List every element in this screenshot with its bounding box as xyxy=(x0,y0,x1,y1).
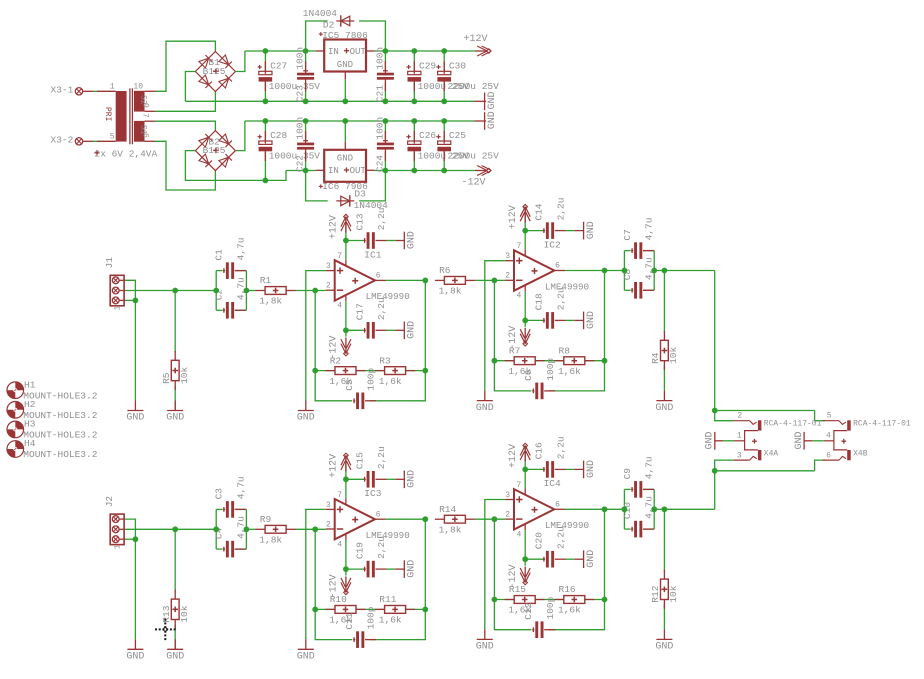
svg-text:1: 1 xyxy=(113,306,122,311)
svg-text:MOUNT-HOLE3.2: MOUNT-HOLE3.2 xyxy=(23,449,97,460)
wire bypass to ground xyxy=(566,468,575,470)
svg-text:C26: C26 xyxy=(419,130,436,141)
svg-text:10: 10 xyxy=(133,82,143,91)
ground xyxy=(166,639,184,662)
svg-text:R16: R16 xyxy=(559,584,576,595)
svg-text:1: 1 xyxy=(113,544,122,549)
svg-text:GND: GND xyxy=(407,470,418,488)
svg-text:GND: GND xyxy=(126,413,144,424)
svg-text:J2: J2 xyxy=(104,496,115,508)
wire V- net stage2 xyxy=(525,291,543,327)
svg-text:R13: R13 xyxy=(161,605,172,622)
svg-text:GND: GND xyxy=(476,642,494,653)
ground xyxy=(395,321,417,339)
svg-text:3: 3 xyxy=(326,501,331,510)
capacitor C27 xyxy=(258,60,321,92)
bridge rectifier B2 xyxy=(195,131,235,171)
svg-text:2: 2 xyxy=(505,511,510,520)
wire bypass to ground xyxy=(566,319,575,321)
svg-text:1: 1 xyxy=(737,431,742,440)
svg-text:1,8k: 1,8k xyxy=(439,286,462,297)
supply +12V xyxy=(329,214,351,239)
capacitor C30 xyxy=(436,60,499,92)
svg-text:GND: GND xyxy=(407,560,418,578)
svg-text:R8: R8 xyxy=(559,345,571,356)
wire input net xyxy=(125,519,216,539)
svg-text:100p: 100p xyxy=(366,367,377,390)
svg-text:2: 2 xyxy=(505,272,510,281)
resistor R13 xyxy=(161,590,190,629)
resistor R2 xyxy=(326,355,366,387)
svg-text:+12V: +12V xyxy=(464,34,488,45)
supply -12V xyxy=(462,166,492,189)
svg-text:100p: 100p xyxy=(545,596,556,619)
junction dots power rails xyxy=(263,48,448,183)
svg-text:R7: R7 xyxy=(509,345,520,356)
mount hole H3 xyxy=(7,419,98,441)
ground xyxy=(476,629,494,652)
connector X3-2 xyxy=(51,135,94,146)
svg-text:7: 7 xyxy=(517,481,522,490)
capacitor C3 xyxy=(214,476,247,517)
svg-text:C5: C5 xyxy=(344,379,355,391)
svg-text:GND: GND xyxy=(586,550,597,568)
wire R4 branch xyxy=(663,509,665,629)
svg-text:OUT: OUT xyxy=(350,47,367,57)
svg-text:X3-1: X3-1 xyxy=(51,85,74,96)
capacitor C4 xyxy=(214,516,247,557)
ground xyxy=(297,639,315,662)
wire secondary S2 pin 9 to bridge B1 AC xyxy=(155,92,215,112)
wire R4 branch xyxy=(663,271,665,391)
wire C25 leads xyxy=(443,121,445,171)
wire B1 minus to 0V rail xyxy=(185,72,195,102)
svg-text:C6: C6 xyxy=(523,369,534,381)
wire feedback net xyxy=(315,280,425,400)
capacitor C9 xyxy=(622,456,655,497)
wire V+ net stage2 xyxy=(525,207,543,250)
svg-text:GND: GND xyxy=(655,403,673,414)
wire stage2 non-inverting input to ground xyxy=(485,500,505,630)
capacitor C11 xyxy=(344,606,377,648)
capacitor C5 xyxy=(344,367,377,409)
svg-text:C12: C12 xyxy=(523,602,534,619)
wire 0V rail upper xyxy=(185,100,474,102)
mount hole H4 xyxy=(7,438,98,460)
capacitor C21 xyxy=(374,47,394,102)
svg-text:2,2u: 2,2u xyxy=(555,198,566,221)
svg-text:9: 9 xyxy=(141,103,150,108)
svg-text:LME49990: LME49990 xyxy=(366,530,410,541)
capacitor C16 xyxy=(534,436,567,477)
svg-text:H1: H1 xyxy=(24,379,36,390)
regulator IC6 7906 xyxy=(316,142,375,192)
resistor R11 xyxy=(375,594,415,626)
junction dots xyxy=(133,228,668,374)
svg-text:3: 3 xyxy=(326,262,331,271)
svg-text:GND: GND xyxy=(337,60,353,70)
svg-text:2200u 25V: 2200u 25V xyxy=(448,81,500,92)
diode D3 1N4004 xyxy=(336,188,388,211)
svg-text:C29: C29 xyxy=(419,60,436,71)
svg-text:J1: J1 xyxy=(104,257,115,269)
svg-text:2,2u: 2,2u xyxy=(376,446,387,469)
wire R1 to op-amp inverting input xyxy=(295,528,326,530)
wire C29 leads xyxy=(413,51,415,101)
resistor R4 xyxy=(650,331,679,370)
supply +12V xyxy=(508,204,530,229)
svg-text:R15: R15 xyxy=(509,584,526,595)
svg-text:C28: C28 xyxy=(270,130,287,141)
svg-text:2,2u: 2,2u xyxy=(555,287,566,310)
capacitor C20 xyxy=(534,526,567,567)
wire secondary S1 pin 6 to bridge B2 AC xyxy=(155,141,215,190)
resistor R5 xyxy=(161,351,190,390)
capacitor C13 xyxy=(354,207,387,248)
svg-text:2,2u: 2,2u xyxy=(555,436,566,459)
wire X3-1 to transformer pin 1 xyxy=(93,90,99,92)
svg-text:IC3: IC3 xyxy=(364,488,381,499)
svg-text:C3: C3 xyxy=(214,488,225,500)
svg-text:10k: 10k xyxy=(668,346,679,363)
capacitor C12 xyxy=(523,596,556,638)
svg-text:3: 3 xyxy=(505,252,510,261)
svg-text:R6: R6 xyxy=(439,265,451,276)
capacitor C23 xyxy=(295,47,315,102)
svg-text:R5: R5 xyxy=(161,372,172,384)
wire bypass to ground xyxy=(386,478,395,480)
svg-text:GND: GND xyxy=(126,652,144,663)
connector J1 xyxy=(104,257,125,311)
wire V+ net stage2 xyxy=(525,446,543,489)
svg-text:4: 4 xyxy=(826,431,831,440)
svg-text:GND: GND xyxy=(487,91,498,109)
svg-text:+12V: +12V xyxy=(508,205,519,229)
svg-text:6: 6 xyxy=(826,451,831,460)
op-amp IC2 xyxy=(505,239,589,300)
wire diode D3 loop xyxy=(306,171,386,201)
capacitor C22 xyxy=(295,117,315,172)
svg-text:LME49990: LME49990 xyxy=(366,291,410,302)
wire input cap loop xyxy=(216,509,246,549)
ground xyxy=(166,401,184,424)
capacitor C6 xyxy=(523,358,556,400)
svg-text:GND: GND xyxy=(407,231,418,249)
svg-text:IN: IN xyxy=(328,166,339,176)
svg-text:GND: GND xyxy=(487,111,498,129)
wire C26 leads xyxy=(413,121,415,171)
svg-text:D2: D2 xyxy=(323,20,335,31)
wire feedback net stage2 xyxy=(494,271,604,391)
capacitor C26 xyxy=(407,130,470,162)
svg-text:2,2u: 2,2u xyxy=(376,536,387,559)
svg-text:1,8k: 1,8k xyxy=(259,535,282,546)
svg-text:4,7u: 4,7u xyxy=(644,456,655,479)
wire feedback net xyxy=(315,519,425,639)
svg-text:X4B: X4B xyxy=(853,450,868,459)
svg-text:C15: C15 xyxy=(354,452,365,469)
svg-text:X4A: X4A xyxy=(764,450,779,459)
supply +12V xyxy=(508,443,530,468)
svg-text:2x 6V 2,4VA: 2x 6V 2,4VA xyxy=(95,149,158,160)
svg-text:R3: R3 xyxy=(379,355,391,366)
svg-text:LME49990: LME49990 xyxy=(545,281,589,292)
wire output cap loop xyxy=(624,489,664,529)
svg-text:C19: C19 xyxy=(354,542,365,559)
svg-text:1,6k: 1,6k xyxy=(379,376,402,387)
wire +12V rail xyxy=(245,50,475,52)
wire R5 branch xyxy=(174,291,176,411)
resistor R8 xyxy=(554,345,594,377)
ground xyxy=(575,550,597,568)
wire stage2 non-inverting input to ground xyxy=(485,261,505,391)
capacitor C7 xyxy=(622,218,655,259)
wire V- net xyxy=(346,301,364,337)
svg-text:R11: R11 xyxy=(379,594,396,605)
wire IC5 GND pin to 0V rail xyxy=(344,79,346,101)
svg-text:LME49990: LME49990 xyxy=(545,520,589,531)
svg-text:GND: GND xyxy=(586,221,597,239)
svg-text:5: 5 xyxy=(110,132,115,141)
mount hole H2 xyxy=(7,399,98,421)
svg-text:GND: GND xyxy=(337,153,353,163)
svg-text:1,8k: 1,8k xyxy=(439,524,462,535)
wire R6 to stage 2 xyxy=(475,279,505,281)
svg-text:IC1: IC1 xyxy=(364,249,381,260)
ground xyxy=(126,401,144,424)
wire C21 leads xyxy=(384,51,386,101)
svg-text:B125: B125 xyxy=(203,66,226,77)
resistor R14 xyxy=(435,504,475,536)
op-amp IC4 xyxy=(505,478,589,539)
ground xyxy=(476,391,494,414)
wire 0V rail lower xyxy=(245,120,475,122)
wire bottom channel to RCA jacks xyxy=(715,460,825,509)
wire C22 leads xyxy=(305,121,307,171)
supply -12V xyxy=(508,326,530,350)
wire top channel to RCA jacks xyxy=(715,271,825,421)
op-amp IC1 xyxy=(326,249,410,310)
wire C23 leads xyxy=(305,51,307,101)
supply -12V xyxy=(508,564,530,588)
wire diode D2 loop xyxy=(306,21,386,51)
wire output cap loop xyxy=(624,251,664,291)
svg-text:7: 7 xyxy=(517,242,522,251)
diode D2 1N4004 xyxy=(303,8,355,31)
svg-text:+12V: +12V xyxy=(329,454,340,478)
svg-text:C16: C16 xyxy=(534,442,545,459)
svg-text:GND: GND xyxy=(407,321,418,339)
svg-text:+12V: +12V xyxy=(508,444,519,468)
svg-text:4: 4 xyxy=(517,292,522,301)
ground xyxy=(575,460,597,478)
wire C28 leads xyxy=(264,121,266,180)
svg-text:R10: R10 xyxy=(330,594,347,605)
wire IC6 GND pin to 0V rail xyxy=(344,121,346,142)
capacitor C8 xyxy=(622,257,655,298)
svg-text:R9: R9 xyxy=(260,514,272,525)
svg-text:6: 6 xyxy=(376,272,381,281)
ground xyxy=(395,560,417,578)
capacitor C1 xyxy=(214,238,247,279)
wire X3-2 to transformer pin 5 xyxy=(93,140,99,142)
svg-text:+12V: +12V xyxy=(329,215,340,239)
resistor R15 xyxy=(505,584,545,616)
capacitor C25 xyxy=(436,130,499,162)
wire C30 leads xyxy=(443,51,445,101)
svg-text:10k: 10k xyxy=(179,366,190,383)
ground xyxy=(395,231,417,249)
svg-text:C11: C11 xyxy=(344,612,355,629)
svg-text:2: 2 xyxy=(326,520,331,529)
svg-text:1,8k: 1,8k xyxy=(259,296,282,307)
svg-text:C20: C20 xyxy=(534,532,545,549)
svg-text:7: 7 xyxy=(141,113,150,118)
wire J ground xyxy=(134,539,136,639)
svg-text:H3: H3 xyxy=(24,419,36,430)
svg-text:2200u 25V: 2200u 25V xyxy=(448,151,500,162)
capacitor C17 xyxy=(354,297,387,338)
resistor R16 xyxy=(554,584,594,616)
wire C24 leads xyxy=(384,121,386,171)
capacitor C14 xyxy=(534,198,567,239)
svg-text:X3-2: X3-2 xyxy=(51,135,74,146)
wire B2 minus to -12V rail xyxy=(185,151,286,181)
svg-text:-12V: -12V xyxy=(462,178,486,189)
ground xyxy=(297,401,315,424)
svg-text:10k: 10k xyxy=(668,585,679,602)
svg-text:GND: GND xyxy=(297,652,315,663)
svg-text:IN: IN xyxy=(328,47,339,57)
wire J ground xyxy=(134,300,136,400)
svg-text:C14: C14 xyxy=(534,203,545,220)
resistor R3 xyxy=(375,355,415,387)
wire stage2 output xyxy=(565,508,624,510)
svg-text:7: 7 xyxy=(337,252,342,261)
svg-text:1N4004: 1N4004 xyxy=(303,8,338,19)
ground xyxy=(126,639,144,662)
connector X3-1 xyxy=(51,85,94,96)
capacitor C18 xyxy=(534,287,567,328)
svg-text:C25: C25 xyxy=(449,130,466,141)
wire V- net stage2 xyxy=(525,530,543,566)
svg-text:1,6k: 1,6k xyxy=(558,366,581,377)
capacitor C15 xyxy=(354,446,387,487)
svg-text:C27: C27 xyxy=(270,60,287,71)
ground xyxy=(655,629,673,652)
wire input net xyxy=(125,280,216,300)
svg-text:IC6 7906: IC6 7906 xyxy=(322,181,368,192)
svg-text:IC5 7806: IC5 7806 xyxy=(322,30,368,41)
wire stage2 output xyxy=(565,270,624,272)
wire bypass to ground xyxy=(386,329,395,331)
wire secondary S1 pin 7 to bridge B2 AC xyxy=(155,121,215,131)
svg-text:4: 4 xyxy=(337,540,342,549)
wire caps to R1 xyxy=(246,528,256,530)
ground xyxy=(575,311,597,329)
svg-text:6: 6 xyxy=(376,510,381,519)
wire R6 to stage 2 xyxy=(475,518,505,520)
capacitor C24 xyxy=(374,117,394,172)
resistor R1 xyxy=(256,275,296,307)
wire bypass to ground xyxy=(386,568,395,570)
wire bypass to ground xyxy=(386,240,395,242)
resistor R9 xyxy=(256,514,296,546)
svg-text:10k: 10k xyxy=(179,605,190,622)
svg-text:GND: GND xyxy=(166,652,184,663)
capacitor C10 xyxy=(622,496,655,537)
svg-text:OUT: OUT xyxy=(350,166,367,176)
svg-text:4: 4 xyxy=(337,302,342,311)
svg-text:2: 2 xyxy=(326,282,331,291)
wire input cap loop xyxy=(216,271,246,311)
connector J2 xyxy=(104,496,125,550)
wire op-amp output xyxy=(386,279,426,281)
svg-text:IC4: IC4 xyxy=(544,478,561,489)
svg-text:4,7u: 4,7u xyxy=(235,238,246,261)
supply +12V xyxy=(464,34,492,56)
svg-text:1: 1 xyxy=(110,82,115,91)
wire C27 leads xyxy=(264,51,266,101)
svg-text:R2: R2 xyxy=(330,355,342,366)
0V rail ground 2 xyxy=(474,111,498,130)
resistor R10 xyxy=(326,594,366,626)
wire non-inverting input to ground xyxy=(306,271,326,401)
ground xyxy=(395,470,417,488)
wire B1 plus to +12V rail xyxy=(235,51,245,72)
ground X4A shield xyxy=(705,431,735,449)
svg-text:5: 5 xyxy=(827,412,832,421)
svg-text:PRI: PRI xyxy=(103,107,112,121)
svg-text:B125: B125 xyxy=(203,145,226,156)
svg-text:H4: H4 xyxy=(24,438,36,449)
svg-text:4,7u: 4,7u xyxy=(644,218,655,241)
wire R1 to op-amp inverting input xyxy=(295,290,326,292)
svg-text:IC2: IC2 xyxy=(544,239,561,250)
resistor R12 xyxy=(650,570,679,609)
wire caps to R1 xyxy=(246,290,256,292)
svg-text:C30: C30 xyxy=(449,60,466,71)
resistor R6 xyxy=(435,265,475,297)
svg-text:C17: C17 xyxy=(354,303,365,320)
wire V+ net xyxy=(346,455,364,498)
wire output to RCA xyxy=(664,508,714,510)
svg-text:GND: GND xyxy=(586,311,597,329)
capacitor C2 xyxy=(214,277,247,318)
wire bypass to ground xyxy=(566,230,575,232)
supply +12V xyxy=(329,453,351,478)
svg-text:2: 2 xyxy=(737,412,742,421)
supply -12V xyxy=(329,336,351,360)
connector X4A RCA-4-117-01 xyxy=(734,412,822,461)
svg-text:C7: C7 xyxy=(622,229,633,240)
wire R5 branch xyxy=(174,529,176,649)
wire output to RCA xyxy=(664,270,714,272)
svg-text:R4: R4 xyxy=(650,352,661,364)
supply -12V xyxy=(329,574,351,598)
svg-text:C1: C1 xyxy=(214,249,225,261)
svg-text:GND: GND xyxy=(586,460,597,478)
capacitor C29 xyxy=(407,60,470,92)
svg-text:2,2u: 2,2u xyxy=(555,526,566,549)
svg-text:100p: 100p xyxy=(366,606,377,629)
0V rail ground xyxy=(474,91,498,110)
wire non-inverting input to ground xyxy=(306,509,326,639)
wire feedback net stage2 xyxy=(494,509,604,629)
svg-text:2,2u: 2,2u xyxy=(376,297,387,320)
svg-text:7: 7 xyxy=(337,491,342,500)
svg-text:100p: 100p xyxy=(545,358,556,381)
